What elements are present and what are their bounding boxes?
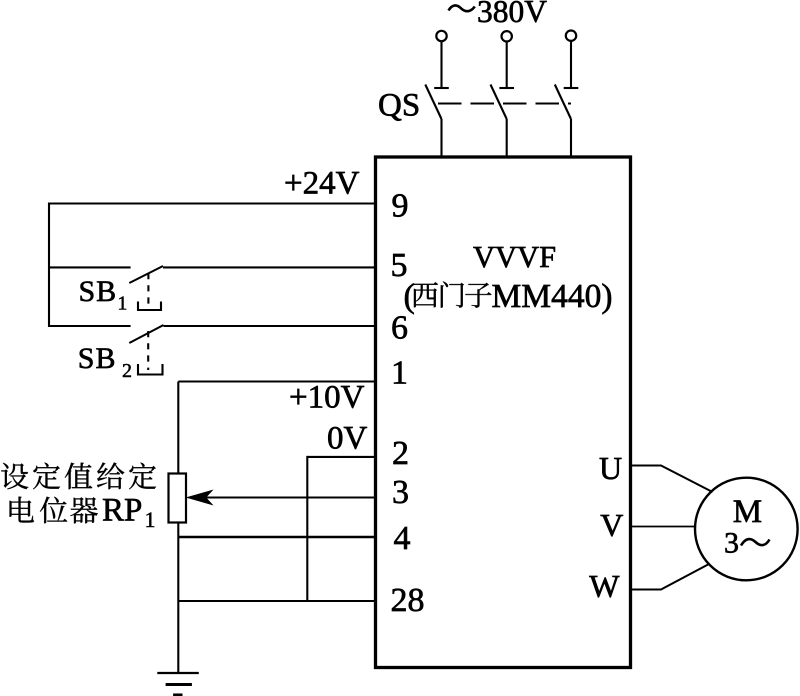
svg-text:1: 1	[391, 355, 408, 392]
svg-text:SB: SB	[79, 275, 118, 308]
wire: pin 4 to potentiometer rail	[178, 536, 375, 538]
pushbutton SB1 actuator link (dashed)	[147, 273, 149, 307]
svg-text:380V: 380V	[477, 0, 547, 29]
wire: terminal L1 to QS fixed contact	[440, 41, 442, 88]
wire: pin 2 drop to pin 28 (vertical)	[306, 456, 308, 601]
wire: pin 28 horizontal	[178, 600, 375, 602]
QS pole 1 blade	[425, 85, 441, 120]
QS pole 2 fixed contact	[499, 87, 514, 89]
svg-text:+24V: +24V	[284, 166, 360, 202]
VVVF inverter U1 (box)	[376, 157, 631, 668]
pushbutton SB1 button cap	[138, 302, 161, 311]
svg-text:4: 4	[394, 520, 411, 557]
RP1 wiper arrowhead	[188, 491, 213, 505]
wire: terminal L2 to QS fixed contact	[506, 41, 508, 88]
terminal L1	[436, 31, 446, 41]
pushbutton SB1 blade	[129, 266, 163, 283]
wire: pin 3 to RP1 wiper	[192, 496, 376, 498]
wire: potentiometer rail upper (pin1 line to RP1)	[177, 382, 179, 474]
QS pole 3 fixed contact	[564, 87, 579, 89]
svg-text:3: 3	[392, 474, 409, 511]
QS linkage (dashed)	[438, 102, 571, 104]
svg-text:9: 9	[392, 187, 409, 224]
wire: terminal L3 to QS fixed contact	[570, 41, 572, 88]
wire: potentiometer rail lower (RP1 to ground)	[177, 523, 179, 674]
svg-text:3: 3	[724, 527, 739, 560]
label (西门子MM440)	[404, 278, 613, 315]
svg-text:5: 5	[391, 247, 408, 284]
svg-text:V: V	[600, 507, 623, 543]
wire: pin W to motor	[631, 564, 710, 590]
wire: pin 1 to potentiometer rail	[178, 380, 375, 382]
wire: QS pole 1 to VVVF box	[440, 119, 442, 157]
label 电位器RP1	[10, 493, 156, 532]
svg-text:1: 1	[145, 507, 156, 532]
label 设定值给定	[1, 462, 156, 489]
wire: QS pole 3 to VVVF box	[570, 119, 572, 157]
svg-text:1: 1	[117, 293, 127, 315]
wire: rail to SB2	[49, 325, 131, 327]
wire: pin V to motor	[631, 526, 696, 528]
wire: QS pole 2 to VVVF box	[506, 119, 508, 157]
svg-text:RP: RP	[102, 493, 142, 529]
svg-text:2: 2	[392, 435, 409, 472]
svg-text:+10V: +10V	[289, 380, 365, 416]
label ~380V	[449, 0, 548, 29]
svg-text:SB: SB	[78, 342, 117, 375]
svg-text:2: 2	[122, 360, 132, 382]
wire: rail to SB1	[49, 266, 131, 268]
pushbutton SB2 blade	[129, 325, 163, 343]
pushbutton SB2 button cap	[138, 364, 163, 375]
wire: SB2 to pin 6	[164, 325, 376, 327]
pushbutton SB2 actuator link (dashed)	[147, 331, 149, 370]
terminal L3	[566, 31, 576, 41]
label 3~	[724, 527, 770, 560]
potentiometer RP1 body	[169, 474, 187, 523]
ground	[157, 673, 199, 695]
wire: left +24V rail (vertical)	[48, 203, 50, 328]
QS pole 3 blade	[555, 85, 571, 120]
label SB1	[79, 275, 128, 315]
svg-text:MM440): MM440)	[492, 278, 613, 315]
svg-text:6: 6	[391, 310, 408, 347]
svg-text:QS: QS	[378, 88, 420, 124]
wire: SB1 to pin 5	[163, 266, 376, 268]
QS pole 1 fixed contact	[434, 87, 449, 89]
svg-text:W: W	[589, 568, 620, 604]
QS pole 2 blade	[491, 85, 507, 120]
svg-text:28: 28	[391, 582, 425, 619]
wire: +24V rail to pin 9	[48, 202, 376, 204]
wire: pin U to motor	[631, 466, 713, 493]
svg-text:U: U	[599, 450, 622, 486]
terminal L2	[502, 31, 512, 41]
svg-text:M: M	[733, 494, 762, 530]
svg-text:0V: 0V	[327, 421, 368, 457]
label SB2	[78, 342, 132, 382]
wire: pin 2 horizontal	[307, 456, 375, 458]
motor M	[695, 478, 798, 581]
svg-text:VVVF: VVVF	[473, 240, 556, 274]
